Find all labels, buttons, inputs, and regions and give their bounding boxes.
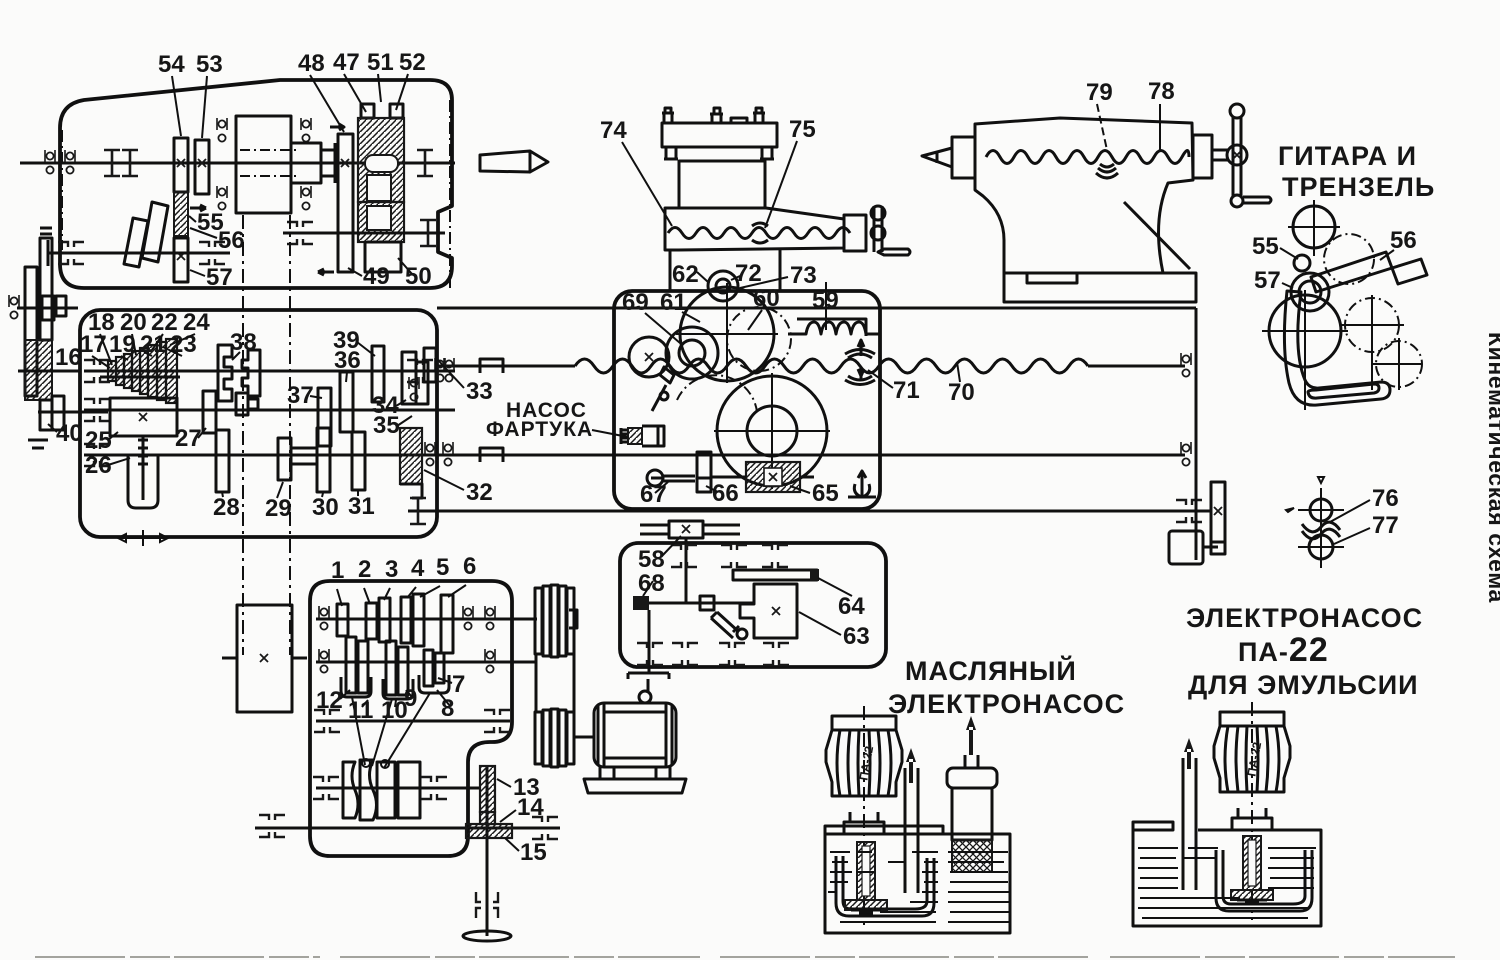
svg-text:9: 9: [404, 685, 417, 712]
dash-dot vertical from spindle: [61, 130, 63, 250]
scan artifact line bottom: [35, 956, 1455, 958]
gear 65 white center: [764, 468, 782, 486]
wire: stub shaft bottom right: [408, 510, 437, 513]
cone gear 17: [108, 361, 116, 381]
wire: vertical into box: [685, 538, 688, 604]
svg-text:12: 12: [316, 687, 343, 714]
gear 1: [337, 604, 348, 636]
svg-text:74: 74: [600, 117, 627, 144]
clutch 38 right half: [242, 350, 260, 396]
gear 28: [216, 430, 229, 492]
leader 33: [438, 360, 464, 388]
gear 31: [352, 432, 365, 490]
sleeve on shaft VI: [291, 448, 317, 464]
leader 40: [48, 424, 57, 432]
gear 7 small: [424, 650, 433, 686]
leader 63: [799, 612, 841, 635]
clutch plate 1 wavy: [343, 762, 358, 818]
vertical drive shaft: [486, 766, 489, 936]
motor centerline: [863, 706, 865, 925]
bearing shaft IV right outside: [435, 358, 445, 382]
leader 54: [172, 76, 181, 136]
svg-text:30: 30: [312, 494, 339, 521]
motor foot left: [600, 767, 614, 779]
upper stack hub: [569, 610, 577, 628]
gear 9 bar: [398, 647, 408, 695]
dash circle lower-left: [677, 375, 757, 412]
wire: vertical to crank: [648, 610, 651, 673]
gear 69 circle outer: [666, 327, 718, 379]
svg-text:56: 56: [218, 227, 245, 254]
gear bar A: [25, 267, 37, 396]
gear 32 hatched: [400, 428, 422, 484]
motor body: [594, 703, 676, 767]
discharge arrow: [1184, 738, 1194, 769]
fork 12/11: [341, 677, 371, 697]
mid block: [679, 161, 765, 208]
tank outline: [1133, 822, 1321, 926]
rod 64 dark end: [810, 569, 819, 581]
svg-text:56: 56: [1390, 227, 1417, 254]
motor foot right: [656, 767, 670, 779]
cone gear 20: [132, 351, 140, 391]
wire: lower shaft 40: [38, 411, 108, 414]
gear 27: [203, 391, 216, 433]
gear 35 cluster: [416, 362, 428, 404]
switch box at rod end: [1169, 531, 1203, 564]
svg-text:64: 64: [838, 593, 865, 620]
svg-text:47: 47: [333, 49, 360, 76]
gear g2 dashed circle: [1324, 234, 1374, 284]
wire: shaft IV (cone shaft): [84, 370, 455, 373]
leader 31: [357, 491, 359, 496]
leader 28: [222, 492, 223, 497]
svg-text:28: 28: [213, 494, 240, 521]
wire: belt line right: [289, 215, 291, 655]
leader 64: [818, 578, 852, 596]
gear 60 dashed circle: [727, 307, 791, 371]
pulley 13 hatched: [480, 766, 495, 812]
tank bottom: [1133, 925, 1321, 928]
gear 57 circle outer: [1291, 273, 1329, 311]
wire: switch box link: [1203, 542, 1225, 554]
wire: apron lower shaft: [651, 477, 710, 480]
bearing A right o1: [463, 606, 473, 630]
white inset lower cluster 2: [367, 206, 391, 230]
wire: lower-left shaft II: [48, 252, 230, 255]
suction pipe inner white: [1248, 840, 1256, 886]
leader 56: [190, 228, 217, 238]
wire: output shaft D: [316, 787, 481, 790]
water texture right: [948, 852, 1010, 922]
pump cylinder: [642, 426, 664, 446]
leader 57: [190, 270, 205, 276]
crosshair g4: [1262, 290, 1348, 410]
sliding key under cone: [100, 376, 180, 379]
svg-text:27: 27: [175, 425, 202, 452]
gear 29: [278, 438, 291, 480]
leader 59: [825, 282, 827, 330]
leader 25: [108, 432, 118, 440]
handwheel shaft: [1213, 150, 1229, 160]
gear bar B: [40, 238, 52, 340]
leader 34: [396, 400, 406, 406]
gear 69 circle inner: [679, 340, 705, 366]
gear 36: [340, 372, 353, 432]
leader 62: [697, 272, 708, 282]
svg-text:70: 70: [948, 379, 975, 406]
leader 74: [622, 142, 672, 226]
svg-text:79: 79: [1086, 79, 1113, 106]
bearing o top right of pulley: [301, 118, 311, 142]
wire: shaft B middle: [316, 661, 537, 664]
inner sump tub: [836, 856, 934, 916]
wire: lower-right shaft III: [283, 232, 445, 235]
quill clamp right: [1193, 135, 1212, 178]
bearing B right o: [485, 649, 495, 673]
side lug right: [760, 147, 774, 159]
wire: small upper shaft: [17, 307, 78, 310]
handwheel hub: [1227, 145, 1247, 165]
tailstock center tip: [922, 148, 952, 167]
bearing top c: [762, 545, 788, 567]
wire: lower outside shaft: [255, 827, 560, 830]
gear 61 big circle: [680, 287, 774, 381]
white slot in cluster: [365, 155, 398, 172]
bearing I left: [104, 150, 120, 176]
svg-text:3: 3: [385, 556, 398, 583]
svg-text:48: 48: [298, 50, 325, 77]
water texture left: [828, 852, 938, 922]
lower gearbox outline: [310, 581, 512, 856]
coupling on feed rod: [480, 448, 503, 462]
bearing D right: [421, 777, 447, 799]
screw nut 79 arcs: [1096, 164, 1118, 178]
wire: leadscrew right straight: [1088, 365, 1185, 368]
lower cone pulley stack: [535, 712, 542, 764]
handwheel bar: [1233, 117, 1241, 196]
motor shell lines: [604, 712, 666, 758]
svg-text:36: 36: [334, 347, 361, 374]
ratchet 67 circle: [647, 470, 663, 486]
leader 72: [731, 276, 740, 280]
svg-text:6: 6: [463, 553, 476, 580]
leader 32: [424, 470, 464, 490]
leadscrew wavy section: [575, 359, 1088, 373]
bearing o bottom right of pulley: [301, 186, 311, 210]
wire: shaft through 65: [711, 476, 814, 479]
svg-text:ЭЛЕКТРОНАСОС: ЭЛЕКТРОНАСОС: [888, 689, 1125, 719]
wire: shaft C: [316, 720, 510, 723]
bearing top b: [721, 545, 747, 567]
swing lever plate 2: [124, 218, 148, 267]
bearing shaft IV right inside: [407, 360, 433, 382]
crank T handle: [628, 673, 669, 693]
half nut 71 symbol: [845, 350, 875, 385]
svg-text:15: 15: [520, 839, 547, 866]
discharge pipe: [1183, 758, 1196, 890]
wire: saddle to apron right: [779, 250, 782, 291]
arrow top of gear 49: [330, 124, 344, 130]
motor barrel ribs: [832, 730, 896, 796]
gear 55/56 hatched section: [174, 192, 188, 236]
leader 77: [1334, 528, 1370, 544]
wire: shaft 16: [18, 370, 80, 373]
clutch plate 3: [377, 762, 395, 818]
cone gear 23: [157, 342, 166, 400]
suction foot plate dark: [845, 900, 887, 910]
svg-text:16: 16: [55, 344, 82, 371]
roller upper circle: [1310, 499, 1332, 521]
cone gear 24: [166, 339, 177, 403]
leader 69: [645, 313, 680, 343]
swing lever plate 1: [142, 202, 168, 262]
arrow bottom of gear 49: [318, 269, 334, 275]
feed gearbox outline: [80, 310, 437, 537]
leader 49: [348, 268, 362, 276]
svg-text:ГИТАРА И: ГИТАРА И: [1278, 141, 1417, 171]
leader 50: [398, 258, 412, 274]
gear cluster 51/52 hatched block: [358, 118, 404, 202]
leader 71: [868, 370, 893, 388]
handwheel crank handle: [878, 249, 910, 255]
svg-text:67: 67: [640, 481, 667, 508]
hanging bearing: [854, 471, 869, 497]
pump spring zigzag: [621, 428, 627, 444]
svg-text:58: 58: [638, 546, 665, 573]
leader 56: [1380, 250, 1394, 260]
gear 66 bar: [697, 452, 711, 492]
pump plunger hatched: [628, 428, 642, 444]
bearing lower right a: [287, 222, 313, 244]
leader 57: [1282, 283, 1293, 288]
gear bar D lower: [40, 400, 52, 430]
coupling on leadscrew: [480, 359, 503, 373]
bearing leadscrew right: [1181, 353, 1191, 377]
bracket 26 screw: [128, 455, 158, 508]
wire: bed top line: [437, 307, 1196, 310]
gear 63 box: [740, 584, 797, 638]
wire: top gear shaft: [640, 525, 740, 534]
hatched cluster bottom: [25, 340, 52, 400]
wire: switch rod: [410, 510, 1211, 513]
bearing bottom vertical: [476, 892, 498, 918]
svg-text:1: 1: [331, 557, 344, 584]
top gear x rect: [669, 521, 703, 538]
leader pump caption: [592, 430, 628, 437]
ratchet lever: [663, 476, 695, 481]
bearing lower mid: [199, 242, 225, 264]
gear 39: [372, 346, 384, 402]
motor stem: [1232, 808, 1272, 830]
leader 15: [505, 838, 519, 851]
gear g5 circle: [1345, 298, 1399, 352]
screw shank 26: [138, 435, 148, 500]
quill block left: [952, 137, 975, 178]
bevel gear 14 horizontal hatched: [466, 824, 512, 838]
gear bar C on 40: [52, 396, 64, 430]
suction foot plate dark: [1231, 890, 1273, 900]
small gear on upper shaft: [42, 296, 54, 320]
diagonal lever: [711, 612, 739, 638]
leader 75: [765, 141, 797, 228]
handwheel knob top: [871, 206, 885, 220]
collar on shaft 68: [700, 596, 714, 610]
leader 39: [357, 342, 375, 356]
tailstock screw wavy: [986, 151, 1189, 164]
bearing bottom c: [719, 643, 745, 665]
wire: spindle shaft I: [20, 162, 455, 165]
bolt small mid: [731, 118, 747, 123]
svg-text:ЭЛЕКТРОНАСОС: ЭЛЕКТРОНАСОС: [1186, 603, 1423, 633]
motor barrel: [1214, 712, 1290, 792]
belt wave between rollers: [1302, 522, 1340, 539]
crosshair g5 g6: [1340, 295, 1422, 390]
svg-text:ПА-22: ПА-22: [1238, 631, 1329, 669]
bearing O pairs right edge top: [409, 377, 419, 401]
svg-text:69: 69: [622, 289, 649, 316]
filter pipe: [965, 755, 978, 768]
leader 38: [232, 352, 240, 360]
crank handle: [1243, 197, 1271, 203]
svg-text:57: 57: [1254, 267, 1281, 294]
left small gear circle: [629, 337, 669, 377]
leader 60: [748, 310, 762, 330]
crosshair gear 61: [676, 283, 778, 383]
bolt 3: [753, 108, 765, 123]
foot tee: [1237, 900, 1267, 903]
slotted link to 56: [1311, 252, 1392, 292]
motor barrel ribs: [1220, 726, 1284, 792]
wire: fork rod links: [352, 693, 430, 768]
cone pulley cylinder: [236, 116, 291, 213]
leader 47: [344, 74, 366, 112]
discharge pipe: [905, 768, 918, 893]
roller lower circle: [1309, 535, 1333, 559]
leaders cone labels: [92, 334, 195, 368]
crosshair big gear: [714, 373, 830, 489]
bolt 2: [710, 108, 723, 123]
svg-text:53: 53: [196, 51, 223, 78]
bearing left of small shaft: [9, 295, 19, 319]
lever pivot: [737, 629, 747, 639]
svg-text:8: 8: [441, 695, 454, 722]
leader 30: [322, 493, 323, 497]
wire: saddle to apron left: [669, 250, 672, 291]
crank knob: [639, 691, 651, 703]
bearing O right low: [443, 442, 453, 466]
diagonal inside body: [1124, 202, 1190, 269]
gear 3: [379, 598, 390, 642]
top plate: [662, 123, 777, 147]
wire: belt edge right: [573, 654, 576, 712]
gear 34: [402, 352, 416, 404]
svg-text:63: 63: [843, 623, 870, 650]
svg-text:26: 26: [85, 452, 112, 479]
gear 2: [366, 603, 377, 639]
svg-text:51: 51: [367, 49, 394, 76]
worm 59 bracket: [797, 319, 866, 336]
leader 36: [346, 372, 347, 382]
feed distribution box outline: [620, 543, 886, 667]
gear 57 body: [174, 238, 188, 282]
leader 70: [957, 362, 960, 382]
leaders 7-12: [340, 678, 452, 707]
gear 54 body: [174, 138, 188, 192]
leader 73: [740, 277, 788, 288]
bolt 1: [662, 108, 674, 123]
leader 14: [500, 810, 516, 822]
filter body: [952, 788, 992, 840]
suction pipe column dark: [857, 842, 875, 900]
svg-text:49: 49: [363, 263, 390, 290]
svg-text:33: 33: [466, 378, 493, 405]
handwheel stem: [874, 206, 882, 252]
fork 7/8: [419, 675, 449, 693]
arrow at gear 55: [190, 205, 206, 211]
cone gear 21: [140, 348, 148, 394]
nut 75 symbol: [752, 223, 768, 243]
svg-text:76: 76: [1372, 485, 1399, 512]
apron box outline: [614, 291, 880, 509]
wire: feed rod: [437, 454, 1185, 457]
bearing lower-left edge: [40, 240, 48, 266]
link end cap: [1392, 259, 1427, 284]
linkage from gear 69: [652, 367, 674, 411]
bearing o top left of pulley: [217, 118, 227, 142]
gear 10 bar: [386, 641, 396, 695]
svg-text:МАСЛЯНЫЙ: МАСЛЯНЫЙ: [905, 655, 1077, 686]
svg-text:5: 5: [436, 554, 449, 581]
gear 68 dark: [633, 596, 649, 610]
bearing I bottom right: [410, 498, 426, 524]
filter mesh crosshatch: [952, 840, 992, 872]
leader 65: [790, 486, 810, 493]
bearing A left o: [319, 606, 329, 630]
svg-text:17: 17: [80, 331, 107, 358]
filter arrow: [966, 716, 976, 755]
wire: leadscrew straight left part: [437, 365, 575, 368]
suction pipe inner white: [862, 846, 870, 896]
worm 59 wave: [788, 322, 880, 334]
cross slide body with beak: [665, 208, 844, 250]
suction pipe column dark: [1243, 836, 1261, 890]
tailstock body outline: [975, 118, 1193, 273]
svg-text:11: 11: [348, 697, 373, 724]
crosshair rollers: [1286, 477, 1344, 568]
svg-text:62: 62: [672, 261, 699, 288]
bearing lower-left a: [58, 242, 84, 264]
motor barrel: [826, 716, 902, 796]
bearing bottom d: [763, 643, 789, 665]
motor base plate: [584, 779, 686, 793]
gear 50 body: [365, 242, 401, 272]
bearing switch rod right: [1176, 500, 1202, 522]
leader 37: [310, 396, 322, 398]
svg-text:73: 73: [790, 262, 817, 289]
hanging bearing base: [848, 496, 876, 499]
bearing shaft V left: [84, 399, 110, 421]
water texture: [1138, 848, 1316, 918]
leader 35: [397, 416, 412, 426]
bearing under bar B: [28, 440, 48, 448]
linkage joint circle: [660, 392, 668, 400]
gear g1 circle: [1293, 206, 1335, 248]
bearing lower right I: [420, 220, 436, 246]
gear g6 circle: [1376, 341, 1422, 387]
bearing C left: [314, 710, 340, 732]
svg-text:ФАРТУКА: ФАРТУКА: [486, 418, 593, 441]
